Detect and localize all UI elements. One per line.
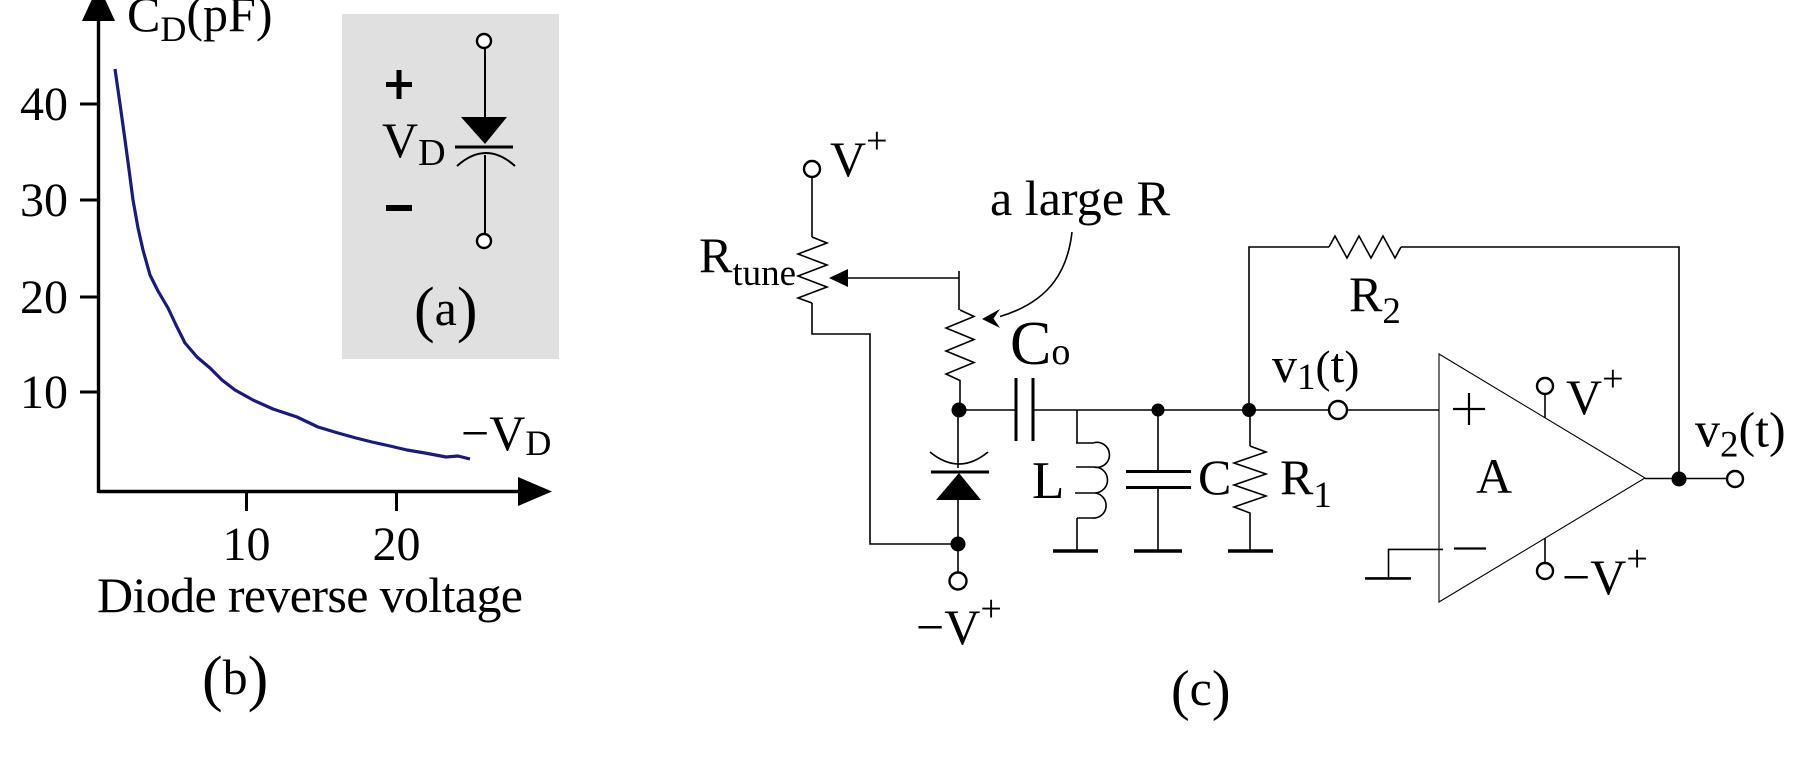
svg-text:30: 30 <box>20 174 68 227</box>
svg-text:(b): (b) <box>202 645 268 713</box>
svg-text:Diode reverse voltage: Diode reverse voltage <box>97 567 523 623</box>
svg-text:20: 20 <box>373 518 421 571</box>
svg-text:10: 10 <box>223 518 271 571</box>
svg-text:v1(t): v1(t) <box>1272 337 1359 398</box>
svg-text:CD(pF): CD(pF) <box>127 0 272 49</box>
svg-text:(a): (a) <box>414 276 478 344</box>
svg-text:40: 40 <box>20 78 68 131</box>
svg-text:L: L <box>1032 452 1064 510</box>
svg-text:C: C <box>1198 449 1231 505</box>
svg-text:A: A <box>1476 448 1512 504</box>
svg-text:a large R: a large R <box>990 170 1171 226</box>
svg-text:(c): (c) <box>1171 660 1231 722</box>
svg-text:10: 10 <box>20 366 68 419</box>
svg-text:20: 20 <box>20 271 68 324</box>
svg-text:v2(t): v2(t) <box>1695 402 1786 466</box>
